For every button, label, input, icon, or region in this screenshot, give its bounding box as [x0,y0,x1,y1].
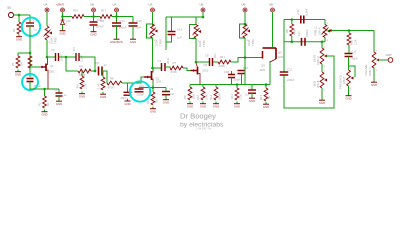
wire wiper to volume [373,31,375,53]
svg-text:470K: 470K [171,70,178,74]
svg-text:1: 1 [154,23,156,25]
svg-text:.1u: .1u [33,28,37,32]
resistor R8 470K [107,77,122,90]
svg-text:C12: C12 [287,68,292,72]
svg-text:100K-A: 100K-A [316,56,320,65]
svg-text:+(BAT): +(BAT) [56,3,65,7]
svg-text:TRBL.C: TRBL.C [314,26,318,36]
svg-text:C3: C3 [51,48,55,52]
wire chain1 b [59,56,76,58]
wire zener to gnd [62,25,64,29]
svg-text:GND: GND [163,101,169,105]
svg-text:R12: R12 [230,93,234,99]
wire treble to bus [324,38,326,42]
svg-text:J201: J201 [49,70,56,74]
svg-text:100: 100 [66,19,71,23]
svg-text:R17: R17 [101,8,107,12]
node junction R15s [236,83,239,86]
svg-text:22nF: 22nF [60,54,64,61]
svg-text:GND: GND [100,95,106,99]
node BAT junction [61,15,64,18]
pad UA stage1 [44,3,50,13]
svg-text:R13: R13 [209,94,213,100]
capacitor C16 1nF [168,17,183,40]
capacitor C20 100uF [90,17,105,29]
wire R17t to bus [291,36,293,42]
svg-text:J201: J201 [156,80,163,84]
wire C6 to gnd [165,95,167,98]
wire BAT down [62,12,64,16]
svg-text:GND: GND [79,95,85,99]
wire UB4 down [244,12,246,26]
transistor Q2 J201 [144,69,162,84]
wire C17 to gnd [58,96,60,99]
ground below MID [319,98,325,105]
wire chain3 a [196,61,209,63]
resistor R5 680R [78,65,91,77]
subtitle text by electrictabs [180,122,224,129]
resistor R16 100 [66,8,84,22]
wire TR4 bracket [240,24,246,38]
svg-text:R8: R8 [110,77,114,81]
capacitor C18 220pF [224,70,241,85]
svg-text:1.5K: 1.5K [97,83,101,89]
svg-text:UB: UB [242,3,246,7]
ground below R1 [16,35,22,42]
svg-text:UB: UB [200,3,204,7]
svg-text:220nF: 220nF [305,29,309,37]
svg-text:22nF: 22nF [166,57,170,64]
svg-text:IN: IN [8,6,12,10]
svg-text:Q5: Q5 [278,51,282,55]
svg-text:470K: 470K [108,86,115,90]
date text [196,126,212,130]
wire UA2 down [152,12,154,26]
resistor R15 2.2K [347,31,357,46]
svg-text:C5: C5 [96,61,100,65]
svg-text:100uF: 100uF [96,25,104,29]
node junction bass top [321,41,324,44]
wire chain2 a [153,67,162,69]
capacitor C11 220nF [297,29,309,46]
svg-text:C16: C16 [177,28,183,32]
trimmer TR3 100K [193,23,207,47]
svg-text:2.2K: 2.2K [239,94,243,100]
svg-text:GND: GND [41,113,47,117]
svg-text:30nF: 30nF [352,57,358,61]
svg-text:MID: MID [313,81,317,86]
potentiometer MID 22K-B [313,71,328,93]
resistor R9 470K [170,61,183,74]
ground below R6 [79,92,85,99]
potentiometer PRESENCE 18K-B [339,69,354,91]
wire stub C2 top [29,15,31,23]
svg-text:J201: J201 [260,68,267,72]
transistor Q5 J201 [263,48,285,59]
wire R5 to junction [91,70,95,72]
wire chain3 to Q4 [231,58,245,63]
svg-text:1uF: 1uF [170,92,175,96]
node UB3 junction [202,16,205,19]
pad UB supply [90,3,96,13]
svg-text:100: 100 [100,19,105,23]
svg-text:Q1: Q1 [50,64,54,68]
svg-text:2.2nF: 2.2nF [80,55,84,62]
pad UB stage3 [200,3,206,13]
svg-text:UA: UA [44,3,48,7]
potentiometer VOLUME 100K-A [364,51,379,77]
resistor R1 1M [12,22,25,34]
wire source row3 [190,84,270,86]
svg-text:3: 3 [376,70,378,72]
capacitor C5 1u [96,61,108,76]
svg-text:GND: GND [59,32,65,36]
wire rail3 [166,16,203,18]
connector pad IN [8,6,14,18]
ground below C9 [249,96,255,103]
wire TR3 bracket [190,25,197,39]
svg-text:GND: GND [213,105,219,109]
svg-text:1M: 1M [20,61,24,66]
node junction R17t [291,18,294,21]
pad UB stage4 [242,3,248,13]
ground below C17 [56,99,62,106]
wire chain1 a [47,56,55,58]
svg-text:Q3: Q3 [204,63,208,67]
svg-text:1: 1 [198,23,200,25]
capacitor C4 2.2nF [72,47,84,62]
svg-text:Dr Boogey: Dr Boogey [180,112,216,121]
wire volume wiper to OUT [377,59,388,61]
resistor R15s 2.2K [230,85,243,101]
svg-text:25K-A: 25K-A [318,27,322,35]
svg-text:1: 1 [327,23,329,25]
pad UA supply [113,3,119,13]
svg-text:GND: GND [371,83,377,87]
svg-text:R7: R7 [173,61,177,65]
wire chain1 c [80,57,96,71]
resistor R17t 470K [285,20,297,37]
svg-text:GND: GND [150,110,156,114]
resistor R16s 1K [259,85,272,102]
svg-text:C19: C19 [243,66,248,70]
wire TR3 to drain3 [195,39,197,63]
svg-text:1K: 1K [46,102,50,106]
svg-text:22n: 22n [213,53,217,58]
ground below R4 [41,110,47,117]
wire stub to R1 [18,15,20,22]
transistor Q4 J201 [260,51,267,72]
pad UA stage2 [149,3,155,13]
wire TR1 to drain1 [46,40,48,57]
svg-text:1: 1 [324,71,326,73]
svg-text:GND: GND [130,40,136,44]
svg-text:1: 1 [247,23,249,25]
svg-text:C9: C9 [249,86,253,90]
svg-text:R5: R5 [11,62,15,66]
wire chain1 down to R5 [66,57,78,71]
highlight circle around C1 [22,74,38,90]
node source junction Q2 [152,86,155,89]
capacitor C10 220pF [135,84,145,96]
node UB junction [92,15,95,18]
resistor R3 gate [28,56,32,68]
svg-text:18K-B: 18K-B [342,77,346,84]
wire UA1 down [46,12,48,26]
wire C9 to gnd [251,93,253,96]
diode D1 zener [61,17,68,27]
resistor R12 20K [183,85,196,101]
wire bass stub [321,42,323,48]
svg-text:C4: C4 [72,47,76,51]
node junction R16s [265,83,268,86]
node gate junction [29,52,32,55]
resistor R11 220K [218,55,231,68]
svg-text:20K: 20K [192,94,196,99]
wire source row1 [30,82,59,90]
wire treble rail [284,19,325,21]
svg-text:UA: UA [113,3,117,7]
svg-text:1.04.2007 0y: 1.04.2007 0y [196,126,212,130]
potentiometer BASS 100K-A [313,47,328,69]
node junction bus R17t [291,41,294,44]
svg-text:J201: J201 [278,55,285,59]
wire UA stub [116,12,118,16]
svg-text:3: 3 [327,40,329,42]
svg-text:R13: R13 [259,94,263,100]
pad UB follower [269,3,275,13]
resistor R2 1M [11,56,24,68]
wire C14 to gnd [116,26,118,37]
svg-text:3: 3 [324,90,326,92]
wire C15 to gnd [132,26,134,37]
wire gate stub to Q1 [30,66,40,68]
wire gate node left [18,52,30,54]
capacitor C1 220uF [27,79,42,89]
highlight circle around C10 [130,81,150,101]
svg-text:1: 1 [49,25,51,27]
node input junction [18,14,21,17]
ground below R7 [100,92,106,99]
svg-text:2.2K: 2.2K [354,39,358,45]
ground below C14 [110,37,123,44]
resistor R17 100 [100,8,113,22]
svg-text:R4: R4 [79,65,83,69]
wire C13 to presence [348,57,350,71]
wire bass to mid [321,64,323,72]
wire stub to R2 [17,53,19,56]
trimmer TREBLE 25K [314,20,331,43]
svg-text:1: 1 [324,47,326,49]
capacitor C2 .1u [26,19,38,32]
wire chain2 b [165,67,170,68]
ground below C20 [90,30,96,37]
ground below R2 [15,70,21,77]
svg-text:680R: 680R [218,93,222,100]
wire volume to gnd [373,68,375,80]
node UA junction [115,15,118,18]
svg-text:1u: 1u [104,63,108,67]
wire stub R4 source [44,89,46,96]
wire treble wiper row [328,29,374,32]
svg-text:220pF: 220pF [137,92,145,96]
svg-text:BASS: BASS [313,55,317,62]
capacitor C14 100uF [112,17,127,30]
node junction C5 [94,70,97,73]
node TR4 junction [244,23,247,26]
svg-text:3.9K: 3.9K [205,94,209,100]
wire BAT to R16 [63,16,73,18]
resistor R4 source 1K [38,96,51,108]
wire bass bus [284,41,325,43]
ground below C6 [163,98,169,105]
svg-text:1K: 1K [268,95,272,99]
svg-text:R6: R6 [76,84,80,88]
svg-text:UB: UB [90,3,94,7]
capacitor C7 22nF [158,57,171,71]
svg-text:C10: C10 [139,84,144,88]
svg-text:R12: R12 [146,98,150,104]
svg-text:5nF: 5nF [137,26,142,30]
svg-text:GND: GND [187,105,193,109]
wire R8 to Q2 gate [122,77,144,83]
svg-text:TR50: TR50 [202,40,206,47]
node drain junction Q2 [151,67,154,70]
svg-text:TR50: TR50 [159,39,163,46]
svg-text:220K: 220K [219,64,226,68]
svg-text:TR50: TR50 [54,37,58,44]
svg-text:R1: R1 [12,28,16,32]
trimmer TR4 100K [242,23,256,47]
wire TR4 to drain4 [244,38,246,58]
wire presence bracket [349,66,355,77]
svg-text:6.8nF: 6.8nF [305,8,309,15]
wire mid to gnd [321,88,323,98]
wire C5 right [102,71,107,83]
wire R17 to C15 [112,16,133,18]
trimmer TR2 100K [149,23,163,47]
svg-text:R16: R16 [73,8,79,12]
pad +BAT [56,3,65,13]
connector pad OUT [386,53,393,62]
svg-text:100uF: 100uF [119,26,127,30]
svg-text:VOLUME: VOLUME [364,64,368,76]
wire C16 down [166,35,172,43]
transistor Q1 J201 [41,58,56,89]
wire Q4 gate [245,57,262,59]
wire UB3 stub [202,12,204,17]
svg-text:C15: C15 [137,19,143,23]
svg-text:R9: R9 [183,95,187,99]
resistor R13 3.9K [196,85,209,101]
svg-text:C7: C7 [158,59,162,63]
svg-text:GND: GND [200,105,206,109]
svg-text:PRESENCE: PRESENCE [339,74,343,89]
svg-text:C14: C14 [120,19,126,23]
svg-text:C13: C13 [352,50,357,54]
svg-text:GND: GND [16,38,22,42]
svg-text:3: 3 [324,66,326,68]
ground below C15 [130,37,136,44]
resistor R10 1M [146,88,159,106]
svg-text:C1: C1 [54,88,58,92]
transistor Q3 J201 [191,63,209,85]
svg-text:1uF: 1uF [245,93,250,97]
svg-text:R2: R2 [38,102,42,106]
capacitor C12 220nF [280,68,295,83]
svg-text:470K: 470K [293,29,297,35]
node drain junction Q3 [195,61,198,64]
node drain junction Q4 [244,56,247,59]
wire UB5 down [272,12,274,47]
svg-text:GND(BAT): GND(BAT) [110,40,123,44]
svg-text:UB: UB [269,3,273,7]
wire chain2 to Q3 gate [183,68,191,71]
wire IN to C2 [14,14,30,16]
wire bus corner left [283,20,285,72]
wire Q2 source down [152,82,154,88]
wire corner to C15 [132,17,134,23]
wire bass wiper loop [284,56,334,108]
svg-text:GND: GND [263,105,269,109]
svg-text:220nF: 220nF [287,78,295,82]
ground below R13 [200,102,206,109]
capacitor C21 20pF [121,83,132,100]
capacitor C15 5nF [129,19,143,30]
resistor R6 2.2K [76,71,88,89]
svg-text:C10: C10 [296,9,300,14]
ground below R16s [263,102,269,109]
svg-text:OUT: OUT [386,53,393,57]
svg-text:1: 1 [376,51,378,53]
wire R16 to R17 [84,16,100,18]
capacitor C10t 6.8nF [296,8,309,23]
svg-text:GND: GND [124,102,130,106]
svg-text:C6: C6 [170,87,174,91]
wire source row2 [139,87,166,89]
svg-text:UA: UA [149,3,153,7]
ground below R14 [213,102,219,109]
capacitor C6 1uF [162,87,175,96]
highlight circle around C2 [22,18,40,36]
resistor R14 680R [209,85,222,101]
svg-text:3: 3 [350,88,352,90]
svg-text:C18: C18 [224,70,229,74]
svg-text:1u: 1u [64,93,68,97]
svg-text:1nF: 1nF [177,36,182,40]
svg-text:R10: R10 [196,94,200,100]
wire UB down [93,12,95,16]
ground below PRESENCE [345,94,351,101]
title text Dr Boogey [180,112,216,121]
ground below VOLUME [371,80,377,87]
capacitor C3 22nF [51,48,64,61]
svg-text:1: 1 [350,69,352,71]
node source junction Q1 [43,88,46,91]
svg-text:GND: GND [234,105,240,109]
capacitor C19 220uF [238,66,249,85]
ground below R15s [234,102,240,109]
svg-text:GND: GND [345,97,351,101]
svg-text:1M: 1M [155,98,159,103]
node junction R15 top [348,29,351,32]
wire TR3 stub [195,17,197,25]
wire presence to gnd [348,86,350,94]
node chain1 junction [65,56,68,59]
trimmer TR1 100K [44,25,58,45]
wire C20 to gnd [93,25,95,30]
svg-text:22K-B: 22K-B [316,80,320,88]
